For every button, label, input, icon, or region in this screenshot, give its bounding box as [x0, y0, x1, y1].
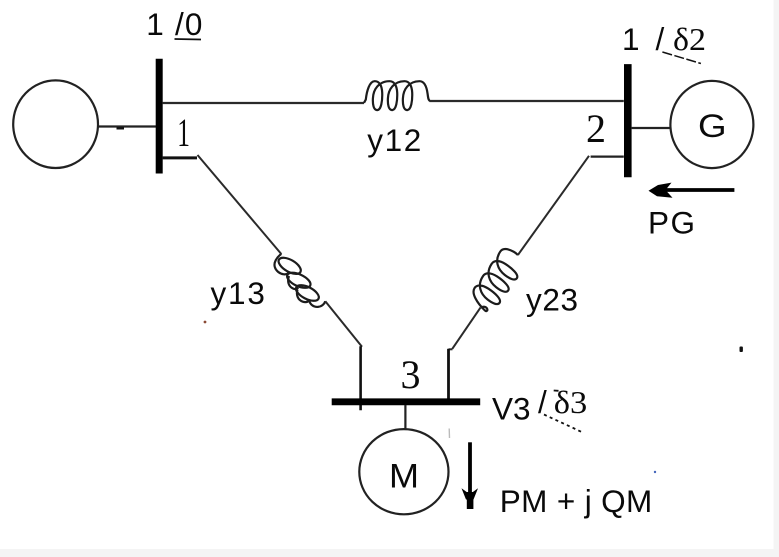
svg-text:δ3: δ3: [554, 384, 588, 420]
svg-text:y23: y23: [526, 282, 579, 318]
svg-text:G: G: [698, 108, 727, 144]
svg-text:1: 1: [622, 21, 640, 57]
svg-text:y13: y13: [211, 275, 267, 311]
svg-text:V3: V3: [492, 391, 531, 427]
svg-text:PM + j QM: PM + j QM: [500, 483, 653, 519]
svg-text:δ2: δ2: [673, 22, 706, 57]
svg-text:2: 2: [586, 106, 606, 151]
svg-text:3: 3: [401, 352, 421, 397]
svg-text:PG: PG: [648, 205, 697, 241]
svg-text:y12: y12: [367, 122, 423, 158]
svg-text:M: M: [389, 457, 419, 495]
svg-text:1: 1: [177, 110, 190, 155]
svg-text:1 /0: 1 /0: [146, 6, 203, 42]
